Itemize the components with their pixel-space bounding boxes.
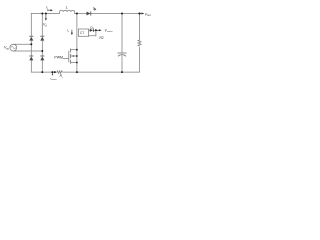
- wire MOSFET source line: [76, 63, 78, 73]
- wire CT return: [89, 30, 96, 36]
- node bottom right-leg: [41, 71, 43, 73]
- node mosfet source: [76, 62, 78, 64]
- wire right leg: [41, 14, 43, 73]
- ac source Vs circle: [10, 44, 17, 51]
- diode boost Db: [87, 12, 91, 16]
- wire bottom rail: [31, 71, 57, 73]
- arrow diode current: [93, 7, 95, 9]
- capacitor Cout: [118, 52, 126, 54]
- arrow Vd down: [45, 15, 47, 19]
- wire left leg: [30, 14, 32, 73]
- resistor Rload zigzag: [138, 40, 141, 46]
- transistor Q1 MOSFET: [63, 58, 69, 60]
- resistor Rs (sense, zigzag): [57, 71, 62, 74]
- wire source top terminal: [13, 43, 31, 45]
- node mosfet body: [76, 55, 78, 57]
- node mosfet source rail: [76, 71, 78, 73]
- node sense tap: [51, 71, 53, 73]
- arrow sense out: [97, 29, 99, 31]
- wire cap branch: [121, 14, 123, 54]
- arrow switch current down: [71, 30, 73, 33]
- svg-text:CT: CT: [80, 31, 84, 35]
- node ac top: [30, 43, 32, 45]
- node CT out: [95, 29, 97, 31]
- wire MOSFET drain line: [76, 14, 78, 50]
- diode CT rectifier: [90, 29, 93, 32]
- node drain: [76, 13, 78, 15]
- node cap top: [121, 13, 123, 15]
- diode bridge D3 bottom-left: [29, 56, 33, 60]
- wire CT out top: [89, 29, 90, 31]
- transistor Q1 body arrow: [72, 55, 75, 56]
- node load top: [138, 12, 140, 14]
- inductor L1: [60, 10, 75, 13]
- node cap bottom: [121, 71, 123, 73]
- wire load branch: [139, 14, 141, 41]
- node top rail right-leg: [41, 13, 43, 15]
- diode bridge D1 top-left: [29, 37, 33, 41]
- wire body tie: [76, 50, 78, 63]
- diode bridge D4 bottom-right: [40, 56, 44, 60]
- svg-text:PWM: PWM: [54, 55, 63, 59]
- node Vd marker: [45, 13, 47, 15]
- wire source bottom terminal: [13, 50, 42, 52]
- node mosfet drain corner: [76, 49, 78, 51]
- arrow input current: [47, 9, 51, 11]
- arrow output: [140, 13, 143, 15]
- CT box: [78, 29, 88, 36]
- diode bars: [29, 35, 33, 37]
- svg-text:R2: R2: [100, 36, 104, 40]
- diode bridge D2 top-right: [40, 37, 44, 41]
- arrow sense tap down: [52, 73, 54, 75]
- svg-text:L: L: [66, 5, 68, 9]
- wire top rail: [31, 13, 59, 15]
- node ac bottom: [41, 50, 43, 52]
